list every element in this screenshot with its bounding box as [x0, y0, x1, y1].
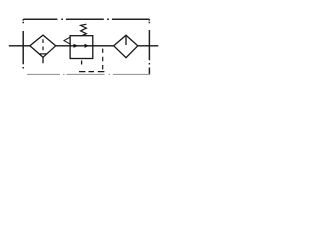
- dashed horizontal line under regulator: [79, 71, 104, 73]
- wire: main flow line left segment: [9, 45, 30, 47]
- filter drain line: [42, 57, 44, 63]
- enclosure top edge (dash-dot): [23, 18, 149, 20]
- enclosure right edge (dash-dot): [148, 19, 150, 74]
- enclosure left edge (dash-dot): [22, 19, 24, 68]
- regulator vent tick: [81, 61, 83, 65]
- filter (diamond with dashed element and water trap): [30, 35, 56, 57]
- enclosure bottom edge (gray dash-dot): [27, 73, 149, 75]
- regulator spring: [81, 24, 87, 35]
- filter element dashed line: [42, 39, 44, 50]
- lubricator (diamond with drip line): [114, 35, 138, 58]
- wire: main flow line right segment: [138, 45, 159, 47]
- wire: main flow line middle segment: [56, 45, 114, 47]
- regulator relief triangle: [64, 37, 70, 44]
- filter water trap chord: [40, 53, 47, 55]
- lubricator drip line: [125, 36, 127, 45]
- regulator flow arrow 2: [85, 44, 90, 48]
- regulator flow arrow 1: [74, 44, 79, 48]
- regulator body: [70, 36, 93, 59]
- dashed branch line from flow line down: [102, 49, 104, 70]
